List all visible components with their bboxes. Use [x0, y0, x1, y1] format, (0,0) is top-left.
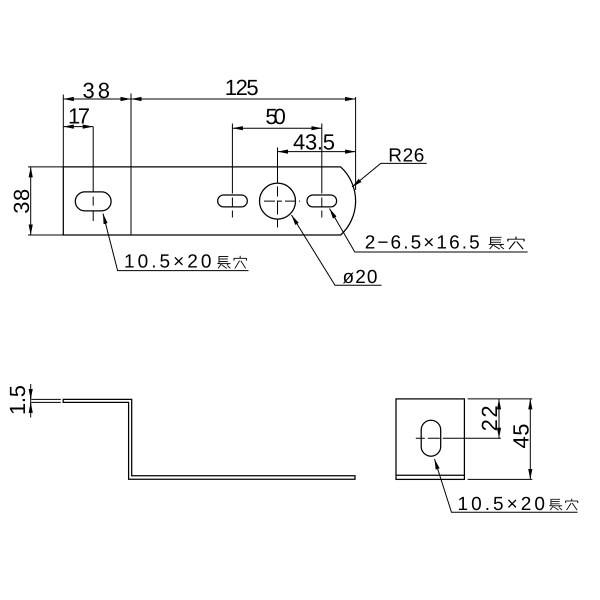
svg-text:43.5: 43.5	[293, 130, 335, 155]
svg-text:10.5×20: 10.5×20	[124, 252, 213, 273]
svg-text:17: 17	[68, 104, 90, 129]
svg-text:22: 22	[477, 405, 502, 431]
svg-text:2−6.5×16.5: 2−6.5×16.5	[365, 233, 481, 254]
svg-text:50: 50	[265, 104, 286, 129]
svg-text:45: 45	[509, 424, 534, 449]
svg-text:125: 125	[225, 75, 259, 100]
svg-text:1.5: 1.5	[5, 385, 30, 415]
svg-text:R26: R26	[388, 146, 425, 167]
svg-text:38: 38	[9, 189, 34, 214]
svg-text:ø20: ø20	[343, 267, 379, 288]
